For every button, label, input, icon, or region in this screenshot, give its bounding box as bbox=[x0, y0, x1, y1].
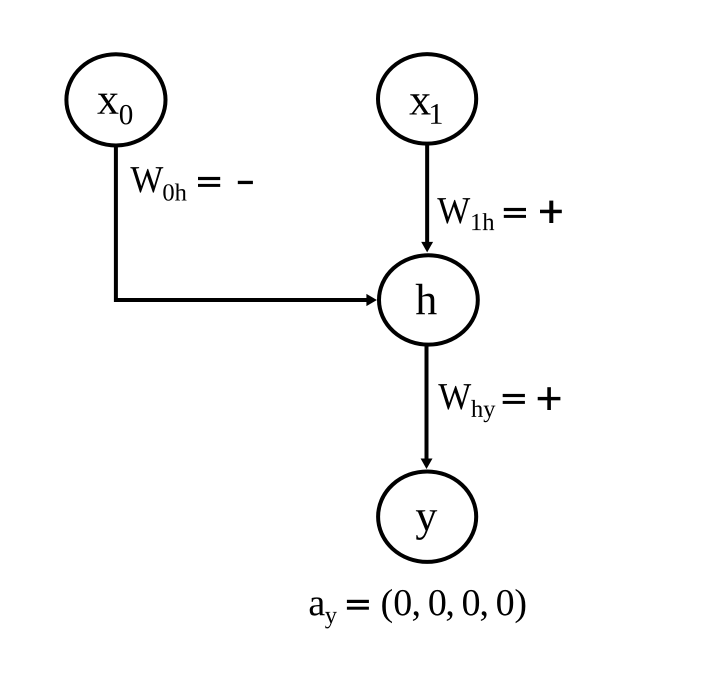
plus sign of W1h bbox=[540, 210, 562, 214]
label x of node x1 bbox=[410, 94, 431, 114]
node x0 circle bbox=[66, 54, 165, 145]
equals sign of W0h bbox=[198, 177, 220, 180]
node h circle bbox=[379, 255, 478, 344]
equals sign of activation label bbox=[347, 600, 369, 603]
equals sign of Why bbox=[503, 394, 525, 397]
zero 4 bbox=[497, 590, 513, 616]
subscript 1h of W1h bbox=[472, 213, 494, 230]
letter a of output activation label bbox=[310, 597, 325, 615]
weight label W of W1h bbox=[437, 198, 470, 223]
node x1 circle bbox=[378, 54, 476, 144]
comma 1 bbox=[413, 611, 419, 621]
wire h to y bbox=[425, 346, 429, 459]
label x of node x0 bbox=[97, 94, 118, 114]
subscript 1 of node x1 bbox=[431, 104, 442, 124]
subscript hy of Why bbox=[471, 400, 495, 422]
arrowhead into h, left bbox=[366, 294, 377, 306]
wire x1 to h bbox=[425, 145, 429, 243]
subscript 0 of node x0 bbox=[120, 105, 132, 125]
subscript y of output activation label bbox=[325, 612, 337, 629]
open parenthesis bbox=[382, 589, 392, 623]
label y of node y bbox=[416, 510, 437, 540]
plus sign of Why bbox=[538, 397, 561, 400]
zero 2 bbox=[429, 590, 445, 616]
arrowhead into y, top bbox=[421, 459, 433, 470]
node y circle bbox=[378, 472, 476, 562]
comma 2 bbox=[447, 611, 453, 621]
zero 1 bbox=[395, 590, 411, 616]
minus sign of W0h bbox=[238, 181, 253, 184]
weight label W of Why bbox=[438, 384, 471, 409]
zero 3 bbox=[463, 590, 479, 616]
weight label W of W0h bbox=[130, 167, 163, 192]
wire x0 to h (elbow) bbox=[116, 147, 367, 300]
arrowhead into h, top bbox=[421, 242, 433, 253]
label h of node h bbox=[416, 284, 437, 315]
equals sign of W1h bbox=[504, 208, 526, 211]
comma 3 bbox=[481, 611, 487, 621]
close parenthesis bbox=[516, 589, 526, 623]
subscript 0h of W0h bbox=[163, 184, 186, 201]
